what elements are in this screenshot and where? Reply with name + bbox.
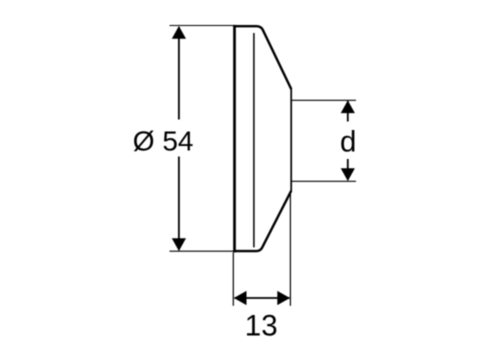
part outline: top edge and upper cone slant	[233, 26, 291, 89]
part outline: left edge	[233, 25, 236, 253]
dimension line d (lower segment)	[347, 159, 349, 180]
arrowhead down (diameter 54)	[172, 238, 186, 251]
arrowhead up (d)	[341, 100, 355, 113]
svg-text:13: 13	[245, 309, 278, 342]
arrowhead right (13)	[277, 291, 290, 305]
extension line left (13)	[232, 253, 234, 306]
dimension line d (upper segment)	[347, 101, 349, 122]
extension line top (diameter 54)	[170, 25, 235, 27]
extension line bottom (d)	[292, 180, 356, 182]
svg-text:Ø 54: Ø 54	[133, 125, 194, 156]
part inner edge line	[253, 33, 255, 247]
extension line right (13)	[289, 192, 291, 306]
part outline: right edge (small diameter face)	[290, 88, 292, 191]
extension line top (d)	[292, 99, 356, 101]
dimension line diameter 54 (lower segment)	[178, 157, 180, 251]
dimension line diameter 54 (upper segment)	[178, 27, 180, 120]
arrowhead left (13)	[234, 291, 247, 305]
svg-text:d: d	[340, 126, 356, 159]
arrowhead up (diameter 54)	[172, 26, 186, 39]
dimension line 13	[235, 297, 290, 299]
arrowhead down (d)	[341, 168, 355, 181]
part outline: lower cone slant and bottom edge	[233, 191, 291, 251]
extension line bottom (diameter 54)	[170, 250, 235, 252]
